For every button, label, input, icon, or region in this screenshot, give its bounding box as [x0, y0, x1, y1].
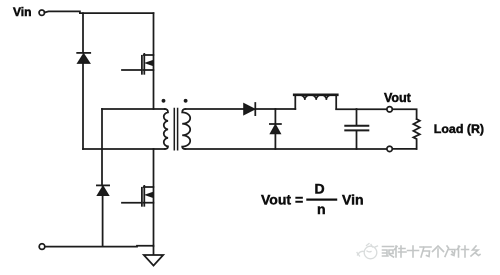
transistor Q2 (bottom MOSFET) [122, 149, 154, 246]
svg-text:Vin: Vin [13, 5, 31, 19]
output terminal bottom (open circle) [387, 146, 392, 151]
diode D2 (clamp, cathode up) [97, 185, 109, 246]
wire node A lead (primary top) [102, 108, 165, 110]
char 为 [445, 246, 455, 257]
wire after D3 [255, 108, 295, 110]
wire secondary top lead [185, 108, 243, 110]
resistor Load (R) [413, 119, 419, 149]
diode D1 (clamp, cathode up) [77, 53, 90, 149]
char 个 [433, 246, 444, 257]
wire bottom rail [45, 245, 154, 248]
char 万 [420, 247, 431, 257]
svg-text:Vin: Vin [342, 192, 364, 208]
capacitor C1 [345, 109, 368, 149]
svg-text:Vout =: Vout = [261, 192, 303, 208]
transformer T1 secondary winding [182, 109, 190, 149]
svg-text:Vout: Vout [384, 91, 412, 105]
wire left mid branch down to D2 [101, 109, 103, 186]
inductor L1 [294, 95, 337, 109]
wire inductor to Vout [336, 108, 387, 110]
wire bottom to load [392, 148, 416, 150]
wire Vout to load [392, 109, 416, 119]
svg-text:n: n [317, 201, 326, 217]
char 什 [457, 246, 469, 257]
wire left branch down to D1 [82, 13, 84, 53]
watermark text 硬件十万个为什么 (approximated strokes) [383, 246, 481, 257]
transformer dot primary [162, 99, 166, 103]
svg-text:D: D [315, 181, 325, 197]
transistor Q1 (top MOSFET) [122, 13, 154, 109]
equation Vout = D/n Vin [261, 181, 364, 218]
input terminal top (open circle) [39, 10, 44, 15]
svg-text:Load (R): Load (R) [434, 122, 484, 136]
watermark logo [357, 244, 378, 259]
char 么 [471, 246, 480, 256]
diode D4 (freewheel, cathode up) [270, 109, 281, 149]
transformer T1 primary winding [164, 109, 168, 149]
transformer dot secondary [184, 99, 188, 103]
input terminal bottom (open circle) [39, 244, 45, 250]
wire node B lead (primary bottom) [83, 148, 165, 150]
diode D3 (series rectifier) [244, 103, 256, 115]
transformer core [174, 109, 177, 150]
ground [144, 246, 163, 266]
char 硬 [383, 247, 394, 258]
wire secondary bottom rail [185, 148, 386, 150]
char 件 [395, 246, 407, 257]
wire top rail Vin to Q1 drain [44, 11, 153, 13]
char 十 [408, 246, 419, 257]
output terminal top (open circle) [387, 107, 392, 112]
